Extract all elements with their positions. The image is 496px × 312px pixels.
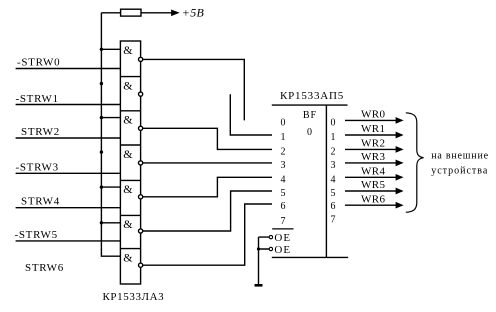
wire -STRW1 — [16, 104, 121, 106]
wire -STRW3 — [16, 172, 121, 174]
node rail-gate3 — [100, 116, 103, 119]
gate U1.4 output bubble — [139, 161, 143, 165]
wire -STRW5 — [16, 240, 121, 242]
svg-text:+5В: +5В — [182, 6, 205, 20]
svg-text:-STRW1: -STRW1 — [16, 93, 59, 105]
svg-text:-STRW5: -STRW5 — [15, 229, 58, 241]
svg-text:6: 6 — [281, 201, 286, 212]
power +5V arrow — [172, 11, 178, 16]
svg-text:-STRW3: -STRW3 — [16, 161, 59, 173]
wire WR5 out — [345, 190, 396, 192]
svg-text:0: 0 — [307, 127, 312, 138]
svg-text:устройства: устройства — [431, 165, 488, 176]
svg-text:-STRW0: -STRW0 — [17, 56, 60, 68]
svg-text:2: 2 — [281, 146, 286, 157]
ground — [255, 284, 263, 287]
arrow WR0 — [396, 118, 402, 123]
svg-text:5: 5 — [331, 188, 336, 199]
svg-text:&: & — [123, 182, 133, 196]
wire gate6 out to buffer in5 — [143, 191, 272, 231]
arrow WR6 — [396, 203, 402, 208]
svg-text:BF: BF — [303, 110, 317, 121]
svg-text:0: 0 — [281, 117, 286, 128]
node rail-gate4 — [100, 150, 103, 153]
svg-text:5: 5 — [281, 188, 286, 199]
IC U1 KP1533LA3 body — [120, 41, 140, 284]
wire WR2 out — [345, 148, 396, 150]
wire WR1 out — [345, 134, 396, 136]
OE overline — [272, 228, 293, 230]
wire rail to gate3 input — [101, 117, 120, 119]
svg-text:WR1: WR1 — [361, 123, 385, 135]
svg-text:0: 0 — [331, 117, 336, 128]
gate U1.5 output bubble — [139, 195, 143, 199]
svg-text:WR3: WR3 — [361, 151, 386, 163]
wire STRW4 — [16, 207, 121, 209]
wire gate7 out to buffer in6 — [143, 204, 272, 265]
resistor R1 — [121, 9, 141, 16]
svg-text:OE: OE — [274, 244, 291, 256]
svg-text:STRW6: STRW6 — [25, 262, 64, 274]
wire gate4 out to buffer in3 — [143, 162, 272, 164]
wire rail to gate6 input — [101, 222, 120, 224]
gate U1.2 output bubble — [139, 92, 143, 96]
arrow WR3 — [396, 161, 402, 166]
svg-text:WR0: WR0 — [361, 109, 386, 121]
OE1 bubble — [269, 235, 272, 238]
svg-text:3: 3 — [331, 160, 336, 171]
arrow WR5 — [396, 189, 402, 194]
node rail-gate5 — [100, 185, 103, 188]
svg-text:4: 4 — [331, 174, 336, 185]
svg-text:7: 7 — [281, 216, 286, 227]
svg-text:на внешние: на внешние — [431, 150, 489, 161]
svg-text:WR2: WR2 — [361, 138, 385, 150]
svg-text:&: & — [123, 43, 133, 57]
wire rail to gate5 input — [101, 186, 120, 188]
brace outputs — [406, 113, 424, 213]
wire WR6 out — [345, 204, 396, 206]
svg-text:WR5: WR5 — [361, 179, 386, 191]
svg-text:&: & — [123, 250, 133, 264]
gate U1.7 output bubble — [139, 263, 143, 267]
wire gate5 out to buffer in4 — [143, 177, 272, 197]
wire to buffer in1 — [230, 94, 272, 135]
svg-text:&: & — [123, 147, 133, 161]
gate U1.6 output bubble — [139, 229, 143, 233]
svg-text:КР1533АП5: КР1533АП5 — [280, 90, 344, 102]
wire STRW2 — [16, 137, 121, 139]
svg-text:WR6: WR6 — [361, 193, 386, 205]
svg-text:1: 1 — [331, 132, 336, 143]
wire gate1 out to buffer in0 — [143, 59, 245, 120]
wire WR4 out — [345, 176, 396, 178]
svg-text:STRW2: STRW2 — [21, 126, 60, 138]
svg-text:&: & — [123, 113, 133, 127]
svg-text:3: 3 — [281, 160, 286, 171]
svg-text:WR4: WR4 — [361, 166, 386, 178]
gate U1.1 output bubble — [139, 57, 143, 61]
wire WR0 out — [345, 119, 396, 121]
svg-text:STRW4: STRW4 — [21, 196, 60, 208]
node rail-gate2 — [100, 82, 103, 85]
wire -STRW0 — [16, 68, 121, 70]
wire gate3 out to buffer in2 — [143, 128, 272, 149]
svg-text:КР1533ЛА3: КР1533ЛА3 — [103, 291, 165, 303]
wire OE feed — [259, 237, 270, 285]
svg-text:2: 2 — [331, 146, 336, 157]
wire +5V feed — [101, 12, 171, 14]
svg-text:OE: OE — [274, 232, 291, 244]
wire WR3 out — [345, 162, 396, 164]
wire pull-up rail — [101, 13, 120, 256]
svg-text:6: 6 — [331, 201, 336, 212]
arrow WR2 — [396, 147, 402, 152]
svg-text:1: 1 — [281, 132, 286, 143]
node rail-gate6 — [100, 221, 103, 224]
wire rail to gate1 input — [101, 48, 120, 50]
arrow WR1 — [396, 133, 402, 138]
svg-text:&: & — [123, 217, 133, 231]
OE2 bubble — [269, 247, 272, 250]
svg-text:7: 7 — [331, 215, 336, 226]
node OE junction — [257, 247, 260, 250]
IC U2 KP1533AP5 body — [272, 105, 348, 257]
svg-text:4: 4 — [281, 174, 286, 185]
svg-text:&: & — [123, 78, 133, 92]
gate U1.3 output bubble — [139, 126, 143, 130]
node rail-gate1 — [100, 48, 103, 51]
arrow WR4 — [396, 175, 402, 180]
